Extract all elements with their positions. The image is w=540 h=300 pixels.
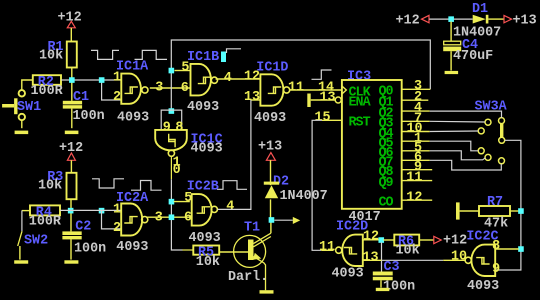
svg-text:ENA: ENA: [349, 96, 372, 111]
svg-text:SW3A: SW3A: [475, 100, 508, 115]
pin 15 label + RST wire: [312, 111, 342, 251]
svg-text:4093: 4093: [332, 267, 364, 282]
svg-text:1N4007: 1N4007: [280, 189, 328, 204]
wire tap to IC2A pin2: [102, 210, 122, 229]
svg-text:4: 4: [226, 200, 234, 215]
svg-text:10k: 10k: [39, 48, 63, 63]
svg-text:13: 13: [244, 90, 260, 105]
svg-text:4093: 4093: [116, 240, 148, 255]
op-amp gate IC2B: [174, 180, 235, 246]
svg-text:5: 5: [181, 61, 189, 76]
svg-text:10k: 10k: [396, 243, 420, 258]
svg-text:Q9: Q9: [379, 176, 394, 191]
svg-text:13: 13: [363, 251, 379, 266]
svg-text:RST: RST: [349, 116, 371, 131]
svg-text:0: 0: [173, 163, 181, 178]
ground SW1: [15, 131, 29, 135]
node junction D2/T1 collector: [269, 217, 275, 223]
resistor R6: [383, 235, 433, 259]
node junction R3/R4: [68, 208, 74, 214]
ground C2: [64, 260, 78, 263]
resistor R1: [39, 40, 77, 68]
wire IC1D out to IC3 CLK: [290, 89, 342, 91]
svg-text:Darl.: Darl.: [228, 270, 268, 285]
node junction IC2C pin8: [518, 246, 524, 252]
IC3 right pin stubs: [402, 89, 433, 200]
svg-text:+12: +12: [396, 13, 420, 28]
wire IC2D pin13 stub: [363, 259, 382, 261]
switch SW1: [2, 90, 41, 128]
node junction D1/C4: [448, 16, 454, 22]
wire junction down to C3: [381, 242, 383, 271]
svg-text:IC1D: IC1D: [256, 60, 288, 75]
op-amp gate IC2A: [113, 191, 163, 255]
svg-text:13: 13: [320, 90, 336, 105]
wire SW3A common to R7 junction and IC2C: [495, 140, 521, 270]
node IC1C input junction: [169, 108, 175, 114]
wire Q3(pin7) to contact: [430, 120, 485, 123]
resistor R7: [456, 195, 519, 232]
op-amp gate IC1A (4093 NAND): [113, 60, 163, 126]
wire IC1D pin13 down-left: [251, 99, 261, 101]
waveform icon (notch, near R1): [91, 50, 119, 59]
svg-text:2: 2: [113, 221, 121, 236]
pin 13 label + ENA bubble + tie bar: [307, 90, 341, 107]
node junction R7/SW3A: [518, 208, 524, 214]
svg-text:4093: 4093: [191, 141, 223, 156]
svg-text:100n: 100n: [73, 109, 105, 124]
wire node row to IC1A pin1: [61, 79, 121, 81]
wire IC2A out to IC2B pin6: [146, 216, 190, 218]
wire feedback rail (IC1B pin5 to IC3 pin3): [171, 40, 430, 109]
svg-text:12: 12: [406, 190, 422, 205]
transistor T1 (Darlington): [228, 221, 271, 291]
svg-text:100R: 100R: [31, 84, 64, 99]
power +12 label (top left): [58, 10, 82, 27]
power +13 label (D2): [258, 140, 282, 161]
wire Q2(pin4) to SW3A top contact: [430, 111, 502, 118]
capacitor C1: [63, 90, 105, 128]
op-amp gate IC2D (points left): [319, 220, 379, 282]
power +13 label (top right): [504, 13, 537, 28]
svg-text:CO: CO: [379, 196, 394, 211]
svg-text:100n: 100n: [383, 280, 415, 295]
ground C3: [376, 288, 390, 291]
wire R1 bottom to node: [71, 68, 73, 101]
power +12 label (top right): [396, 13, 430, 28]
wire IC2B out up to IC1D pin13: [218, 100, 251, 209]
svg-text:8: 8: [175, 121, 183, 136]
clock edge icon near CLK: [312, 70, 332, 79]
svg-text:2: 2: [113, 90, 121, 105]
svg-text:SW1: SW1: [17, 100, 41, 115]
node junction IC2A pin2 tap: [99, 208, 105, 214]
wire Q5(pin1) to contact: [430, 141, 479, 151]
node junction R6/C3: [378, 237, 384, 243]
cursor tick mark: [227, 49, 242, 53]
svg-text:4093: 4093: [187, 100, 219, 115]
ground C1: [65, 131, 79, 135]
wire IC1B out to IC1D pin12: [216, 78, 261, 80]
svg-text:4093: 4093: [254, 111, 286, 126]
waveform icon (pulse, near IC1B): [135, 50, 168, 59]
resistor R2: [22, 75, 64, 99]
counter IC3 4017: [342, 70, 402, 225]
resistor R5: [193, 246, 248, 270]
svg-text:6: 6: [181, 81, 189, 96]
svg-text:12: 12: [363, 230, 379, 245]
svg-text:470uF: 470uF: [453, 49, 493, 64]
wire tap to IC1A pin2: [102, 80, 122, 100]
power +12 label (R6): [434, 234, 467, 249]
wire +12 to D1 anode: [429, 18, 472, 20]
svg-text:1: 1: [113, 71, 121, 86]
switch SW3A: [475, 100, 508, 164]
svg-text:T1: T1: [244, 221, 260, 236]
svg-text:1: 1: [113, 203, 121, 218]
wire Q4(pin10) to contact: [430, 130, 479, 133]
op-amp gate IC1B: [175, 50, 220, 115]
wire Q7(pin6) to contact: [430, 160, 502, 170]
svg-text:100R: 100R: [29, 215, 62, 230]
svg-text:9: 9: [163, 121, 171, 136]
svg-text:10k: 10k: [38, 179, 62, 194]
node junction IC2A out: [169, 214, 175, 220]
wire junction to output arrow: [274, 219, 293, 221]
svg-text:10: 10: [451, 250, 467, 265]
wire IC2D output stub: [321, 249, 333, 251]
op-amp gate IC1C (points down): [155, 110, 222, 156]
output arrow (yellow): [293, 217, 300, 224]
svg-text:IC1B: IC1B: [187, 50, 219, 65]
op-amp gate IC1D: [244, 60, 290, 126]
diode D2: [264, 160, 328, 218]
svg-text:4: 4: [224, 71, 232, 86]
wire IC1A out to IC1B pin6: [150, 87, 190, 89]
node junction R1/R2/C1: [69, 77, 75, 83]
svg-text:4093: 4093: [189, 231, 221, 246]
wire IC2D pin12 to junction: [363, 239, 379, 241]
waveform icon (notch, near R3): [92, 179, 124, 188]
svg-text:+13: +13: [513, 13, 537, 28]
capacitor C3: [373, 260, 415, 295]
capacitor C4: [443, 21, 493, 70]
cursor block near IC1B: [221, 52, 226, 63]
svg-text:D1: D1: [472, 2, 488, 17]
svg-text:SW2: SW2: [24, 234, 48, 249]
wire R1 top: [70, 28, 72, 42]
resistor R4: [22, 205, 62, 229]
switch SW2: [18, 210, 48, 259]
wire to R3: [70, 160, 72, 173]
wire Q6(pin5) to contact: [430, 151, 486, 160]
svg-text:12: 12: [244, 70, 260, 85]
svg-text:10k: 10k: [196, 255, 220, 270]
svg-text:100n: 100n: [74, 242, 106, 257]
capacitor C2: [62, 220, 106, 260]
wire R3 bottom to node: [70, 199, 72, 231]
svg-text:11: 11: [319, 240, 335, 255]
resistor R3: [38, 170, 77, 199]
wire D1 to +13: [488, 18, 504, 20]
svg-text:+13: +13: [258, 140, 282, 155]
svg-text:4093: 4093: [117, 110, 149, 125]
wire IC2C output to C3 row: [443, 259, 466, 261]
op-amp gate IC2C (points left): [451, 230, 500, 294]
node junction IC1B pin5: [169, 68, 175, 74]
IC3 right pin number labels: [406, 79, 422, 205]
svg-text:11: 11: [406, 171, 422, 186]
wire IC2C pin8 to junction: [495, 248, 519, 250]
waveform icon (pulse, near IC2B): [217, 181, 247, 190]
svg-text:11: 11: [288, 80, 304, 95]
svg-text:+12: +12: [443, 234, 467, 249]
svg-text:4093: 4093: [467, 279, 499, 294]
ground SW2: [14, 260, 28, 263]
wire IC1C out down to R5 row: [170, 156, 172, 179]
svg-text:IC3: IC3: [347, 70, 371, 85]
diode D1: [453, 2, 501, 41]
node junction pin2 tap: [99, 77, 105, 83]
ground C4: [445, 71, 459, 74]
node junction IC2B pin5: [169, 199, 175, 205]
wire node row to IC2A pin1: [60, 209, 121, 211]
ground T1 emitter: [260, 290, 274, 293]
svg-text:15: 15: [315, 111, 331, 126]
power +12 label (R3): [59, 141, 83, 160]
svg-text:R7: R7: [487, 195, 503, 210]
